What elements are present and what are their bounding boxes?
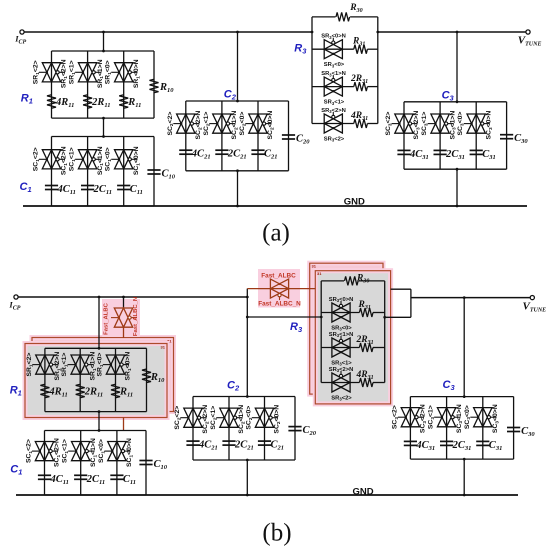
- label Fast_ALBC_N (left, b): [133, 297, 139, 336]
- gate control label SC2<0>N: [274, 405, 282, 434]
- transmission gate SR1<2>: [32, 355, 58, 374]
- wire Fast_ALBC red bypass wire (b): [247, 288, 315, 290]
- svg-text:Fast_ALBC_N: Fast_ALBC_N: [258, 301, 301, 308]
- label 4C21: [191, 149, 211, 161]
- gate control label SR3<0>N (b): [329, 297, 354, 303]
- label C2 (b) blue: [227, 380, 240, 393]
- label R10: [150, 372, 165, 384]
- label ICP (a): [14, 34, 26, 46]
- svg-text:GND: GND: [344, 197, 365, 208]
- gate control label SR3<0>N (a): [321, 34, 346, 40]
- gate control label SC3<0>N: [485, 111, 493, 140]
- highlight halo Fast_ALBC gate (right, b): [258, 269, 300, 308]
- svg-text:31: 31: [317, 271, 322, 276]
- resistor row 1 (b): [359, 308, 373, 317]
- label C21: [264, 149, 278, 161]
- label C31: [489, 440, 503, 452]
- label 4R11: [48, 387, 67, 399]
- capacitor 2C11: [74, 475, 87, 479]
- gate control label SC2<2>: [174, 406, 182, 430]
- capacitor 2C21: [222, 441, 235, 445]
- gate control label SC1<1>N: [90, 438, 98, 467]
- wire trunk to R3 left rail (b): [247, 316, 321, 318]
- label R30 (a): [349, 3, 362, 14]
- transmission gate SC1<0>: [111, 150, 137, 169]
- label R10: [159, 82, 174, 94]
- label 4R11: [55, 97, 74, 109]
- label ICP (b): [8, 299, 20, 311]
- label C10: [162, 169, 176, 181]
- transmission gate SC3<0>: [470, 408, 496, 427]
- gate control label SC2<0>: [246, 406, 254, 430]
- transmission gate SR1<2>: [39, 63, 65, 82]
- wire R1a branch 3: [123, 51, 125, 118]
- label R11: [119, 387, 133, 399]
- gate control label SC1<2>: [33, 147, 41, 171]
- transmission gate SC3<0>: [464, 114, 490, 133]
- wire VTUNE to C3 stub (b): [463, 296, 466, 398]
- wire ICP to C2 stub (a): [236, 31, 239, 103]
- capacitor C31: [476, 441, 489, 445]
- C1a box bottom rail wire: [52, 205, 155, 207]
- transmission gate SC2<1>: [209, 114, 235, 133]
- gate control label SC1<1>: [69, 147, 77, 171]
- label GND (a): [344, 197, 365, 208]
- label Fast_ALBC (right, b): [261, 273, 296, 280]
- label Fast_ALBC_N (right, b): [258, 301, 301, 308]
- resistor 4R11: [40, 384, 49, 398]
- gate control label SR1<0>: [105, 60, 113, 84]
- svg-text:SR3<1>: SR3<1>: [331, 361, 352, 367]
- label 2C31: [452, 440, 472, 452]
- wire C3a branch 1: [403, 102, 405, 169]
- caption (b): [262, 520, 291, 547]
- wire ICP to R1 stub (b): [98, 296, 101, 350]
- gate control label SR3<1> (b): [331, 361, 352, 367]
- wire C1b branch 1: [44, 431, 46, 496]
- svg-text:SR3<0>: SR3<0>: [331, 326, 352, 332]
- svg-text:Fast_ALBC: Fast_ALBC: [104, 302, 110, 334]
- wire C3b branch 2: [446, 397, 448, 460]
- capacitor 2C31: [434, 150, 447, 154]
- wire C1a branch 1: [51, 137, 53, 207]
- gate control label SR1<0>: [97, 353, 105, 377]
- transmission gate SR1<0>: [111, 63, 137, 82]
- gate control label SC3<2>N: [413, 111, 421, 140]
- label 2R31 (b): [356, 335, 374, 346]
- capacitor 2C31: [440, 441, 453, 445]
- highlight box R3 copy (back, b): [310, 263, 383, 394]
- label 2C31: [445, 149, 465, 161]
- capacitor 2C11: [81, 186, 94, 190]
- transmission gate SC2<2>: [173, 114, 199, 133]
- svg-text:SR3<0>: SR3<0>: [324, 62, 345, 68]
- transmission gate SR3<0> (b): [332, 301, 350, 322]
- gate control label SC3<1>: [421, 112, 429, 136]
- R1b box top rail wire: [45, 347, 147, 349]
- gate control label SR1<1>N: [97, 59, 105, 88]
- transmission gate SC3<1>: [428, 114, 454, 133]
- capacitor C10: [147, 170, 160, 174]
- R3 (b) top edge wire with R30: [321, 280, 385, 282]
- gate control label SR1<2>: [33, 60, 41, 84]
- R3 (b) right rail wire: [383, 281, 386, 383]
- gate control label SC3<0>: [464, 405, 472, 429]
- R3 (b) row 3 wire: [321, 382, 385, 384]
- transmission gate SC3<1>: [434, 408, 460, 427]
- gate control label SR1<1>: [61, 353, 69, 377]
- transmission gate SC1<2>: [39, 150, 65, 169]
- label R11: [127, 97, 141, 109]
- R1a box right edge wire: [153, 51, 155, 118]
- transmission gate SC1<1>: [68, 442, 94, 461]
- wire C2 to GND stub (b): [246, 459, 249, 497]
- label C10: [154, 459, 168, 471]
- R1b box bottom rail wire: [45, 411, 147, 413]
- R1a box top rail wire: [52, 50, 155, 52]
- svg-text:Fast_ALBC: Fast_ALBC: [261, 273, 296, 280]
- label C3 (b) blue: [443, 379, 456, 392]
- capacitor C10: [139, 461, 152, 465]
- transmission gate SC1<0>: [104, 442, 130, 461]
- label C20: [296, 134, 310, 146]
- capacitor 4C21: [186, 441, 199, 445]
- svg-text:GND: GND: [353, 486, 374, 497]
- R3 (a) right rail wire: [376, 17, 379, 124]
- gate control label SC1<1>: [62, 439, 70, 463]
- gate control label SR3<0> (b): [331, 326, 352, 332]
- C1a box right edge wire: [153, 137, 155, 207]
- wire C3a branch 2: [439, 102, 441, 169]
- label 4C11: [57, 184, 76, 196]
- capacitor C11: [110, 475, 123, 479]
- svg-text:SR3<2>N: SR3<2>N: [329, 367, 354, 373]
- label 4C31: [409, 149, 429, 161]
- capacitor C21: [258, 441, 271, 445]
- gate control label SR3<2>N (a): [321, 108, 346, 114]
- R3 (b) left rail wire: [320, 281, 323, 383]
- label 2R11: [84, 387, 103, 399]
- capacitor 4C11: [38, 475, 51, 479]
- transmission gate SR1<1>: [68, 355, 94, 374]
- label R3 (a) blue: [294, 43, 307, 56]
- wire VTUNE to C3 stub (a): [456, 31, 459, 104]
- node: ICP to R1 stub (a): [102, 31, 105, 53]
- label 4R31 (a): [350, 111, 368, 122]
- label C2 (a) blue: [224, 88, 237, 101]
- gate control label SR3<2>N (b): [329, 367, 354, 373]
- capacitor 4C11: [45, 186, 58, 190]
- transmission gate SR3<2> (b): [332, 371, 350, 392]
- highlight halo Fast_ALBC gate (left, b): [102, 299, 140, 337]
- C3b box right edge wire: [513, 397, 515, 460]
- resistor R30 (b): [345, 276, 359, 285]
- label C20: [303, 425, 317, 437]
- wire ICP corner trunk (b): [246, 289, 249, 397]
- wire C3 to GND stub (b): [463, 458, 466, 497]
- R3 (b) row 2 wire: [321, 347, 385, 349]
- gate control label SC1<2>N: [61, 146, 69, 175]
- label R31 (b): [358, 300, 371, 311]
- C2b box bottom rail wire: [193, 459, 295, 461]
- wire R1 to C1 stub (a): [102, 117, 105, 138]
- wire C3b branch 1: [409, 397, 411, 460]
- wire C3b branch 3: [482, 397, 484, 460]
- label R1 (b) blue: [10, 384, 22, 397]
- caption (a): [262, 220, 290, 247]
- label R30 (b): [356, 273, 369, 284]
- label 4C31: [415, 440, 435, 452]
- label R31 (a): [352, 37, 365, 48]
- resistor 4R31 (a): [354, 119, 368, 128]
- gate control label SC1<2>N: [54, 438, 62, 467]
- gate control label SR3<2> (a): [324, 137, 345, 143]
- wire Fast_ALBC gate to R1 box (b): [123, 327, 125, 338]
- wire VTUNE line (a): [378, 31, 526, 33]
- C1b box top rail wire: [45, 430, 147, 432]
- wire C2b branch 3: [264, 397, 266, 461]
- label 2C11: [86, 474, 105, 486]
- transmission gate SC1<1>: [75, 150, 101, 169]
- label 2C21: [234, 440, 254, 452]
- capacitor C31: [470, 150, 483, 154]
- C3b box top rail wire: [410, 396, 513, 398]
- svg-text:(a): (a): [262, 220, 290, 247]
- transmission gate SR1<0>: [103, 355, 129, 374]
- resistor 2R11: [76, 384, 85, 398]
- svg-text:Fast_ALBC_N: Fast_ALBC_N: [133, 297, 139, 336]
- resistor row 3 (b): [359, 378, 373, 387]
- label 4C21: [198, 440, 218, 452]
- R1b box right edge wire: [146, 348, 148, 411]
- gate control label SC1<0>: [98, 439, 106, 463]
- label C1 (b) blue: [10, 464, 22, 477]
- wire C2b branch 1: [192, 397, 194, 461]
- R3 (a) row 2 wire: [312, 86, 378, 88]
- gate control label SR1<2>: [26, 353, 34, 377]
- C3a box top rail wire: [404, 101, 507, 103]
- svg-text:31: 31: [161, 345, 166, 350]
- wire red bypass emerges right (b): [391, 288, 411, 290]
- label 4R31 (b): [356, 370, 374, 381]
- wire C2a branch 3: [257, 101, 259, 171]
- transmission gate SR1<1>: [75, 63, 101, 82]
- terminal VTUNE (a): [526, 30, 530, 34]
- C3a box right edge wire: [506, 102, 508, 169]
- wire C2a branch 1: [185, 101, 187, 171]
- capacitor 4C31: [397, 150, 410, 154]
- label C30: [514, 133, 528, 145]
- GND line (b): [16, 494, 518, 496]
- svg-text:SR3<1>N: SR3<1>N: [329, 332, 354, 338]
- gate control label SR3<2> (b): [331, 396, 352, 402]
- wire R1a branch 1: [51, 51, 53, 118]
- wire C1a branch 3: [123, 137, 125, 207]
- wire ICP to Fast_ALBC gate (b): [122, 296, 125, 308]
- wire C1a branch 2: [87, 137, 89, 207]
- capacitor C30: [507, 428, 520, 432]
- resistor R10: [142, 369, 151, 383]
- gate control label SR1<2>N: [61, 59, 69, 88]
- capacitor 2C21: [215, 150, 228, 154]
- label C11: [123, 474, 136, 486]
- transmission gate SC2<0>: [252, 408, 278, 427]
- transmission gate SC1<2>: [32, 442, 58, 461]
- gate control label SC2<0>: [239, 112, 247, 136]
- wire bracket vertical (b): [410, 289, 412, 317]
- capacitor 4C31: [404, 441, 417, 445]
- label Fast_ALBC (left, b): [104, 302, 110, 334]
- wire R1b branch 3: [115, 348, 117, 411]
- gate control label SC2<1>: [210, 406, 218, 430]
- transmission gate SC3<2>: [398, 408, 424, 427]
- transmission gate Fast_ALBC (right, b): [270, 279, 288, 300]
- label 2R11: [91, 97, 110, 109]
- gate control label SC2<2>N: [202, 405, 210, 434]
- label C11: [130, 184, 143, 196]
- gate control label SC3<0>N: [492, 404, 500, 433]
- wire R1 to C1 stub (b): [98, 410, 101, 432]
- gate control label SC2<1>N: [238, 405, 246, 434]
- svg-text:SR3<0>N: SR3<0>N: [329, 297, 354, 303]
- capacitor C20: [288, 427, 301, 431]
- highlight box R3 copy (front, b): [315, 271, 390, 404]
- gate control label SC1<0>N: [126, 438, 134, 467]
- transmission gate SR3<1> (a): [324, 75, 342, 96]
- wire C3 to GND stub (a): [456, 168, 459, 208]
- gate control label SC3<1>N: [456, 404, 464, 433]
- label C31: [482, 149, 496, 161]
- wire C2a branch 2: [221, 101, 223, 171]
- gate control label SC3<1>: [428, 405, 436, 429]
- capacitor C21: [251, 150, 264, 154]
- gate control label SC1<1>N: [97, 146, 105, 175]
- label C30: [521, 426, 535, 438]
- label C3 (a) blue: [442, 90, 455, 103]
- resistor R11: [119, 95, 128, 109]
- svg-text:SR3<2>: SR3<2>: [331, 396, 352, 402]
- C1b box right edge wire: [145, 431, 147, 496]
- highlight box R1 copy (front, b): [25, 344, 167, 418]
- label VTUNE (b): [523, 300, 547, 313]
- gate control label SR1<1>: [69, 60, 77, 84]
- gate control label SR3<1> (a): [324, 100, 345, 106]
- C1b box bottom rail wire: [45, 494, 147, 496]
- label 2C21: [227, 149, 247, 161]
- gate control label SR3<0> (a): [324, 62, 345, 68]
- gate control label SC2<2>N: [195, 111, 203, 140]
- gate control label SC3<2>: [391, 405, 399, 429]
- transmission gate Fast_ALBC (left, b): [111, 308, 137, 327]
- R3 (a) row 3 wire: [312, 123, 378, 125]
- label R3 (b) blue: [290, 321, 303, 334]
- label 2C11: [93, 184, 112, 196]
- gate control label SC3<1>N: [449, 111, 457, 140]
- resistor R31 (a): [354, 45, 368, 54]
- transmission gate SC2<1>: [217, 408, 243, 427]
- resistor R11: [111, 384, 120, 398]
- wire Fast_ALBC gate top lead (b): [123, 308, 125, 309]
- gate control label SC1<0>N: [133, 146, 141, 175]
- svg-text:SR3<1>N: SR3<1>N: [321, 71, 346, 77]
- label C1 (a) blue: [20, 181, 32, 194]
- label 2R31 (a): [350, 74, 368, 85]
- resistor R30 (a): [336, 12, 350, 21]
- label 4C11: [50, 474, 69, 486]
- label VTUNE (a): [518, 35, 542, 48]
- wire Fast_ALBC bypass to C1 (b): [123, 417, 125, 430]
- resistor R10: [150, 79, 159, 93]
- wire C1b branch 3: [116, 431, 118, 496]
- terminal VTUNE (b): [530, 296, 534, 300]
- wire R1b branch 1: [44, 348, 46, 411]
- gate control label SR1<2>N: [54, 352, 62, 381]
- wire C1b branch 2: [80, 431, 82, 496]
- gate control label SR1<0>N: [133, 59, 141, 88]
- resistor 2R31 (a): [354, 82, 368, 91]
- C3a box bottom rail wire: [404, 168, 507, 170]
- wire C3a branch 3: [475, 102, 477, 169]
- wire R1a branch 2: [87, 51, 89, 118]
- svg-text:SR3<1>: SR3<1>: [324, 100, 345, 106]
- transmission gate SC2<2>: [181, 408, 207, 427]
- svg-text:SR3<2>: SR3<2>: [324, 137, 345, 143]
- gate control label SR3<1>N (a): [321, 71, 346, 77]
- capacitor C11: [117, 186, 130, 190]
- wire R3 right rail out (b): [385, 316, 411, 318]
- transmission gate SC3<2>: [392, 114, 418, 133]
- transmission gate SR3<0> (a): [324, 38, 342, 59]
- capacitor C30: [500, 135, 513, 139]
- wire R1b branch 2: [79, 348, 81, 411]
- resistor 4R11: [47, 95, 56, 109]
- R3 (b) row 1 wire: [321, 312, 385, 314]
- gate control label SC2<1>N: [231, 111, 239, 140]
- gate control label SC2<1>: [203, 112, 211, 136]
- gate control label SC1<2>: [26, 439, 34, 463]
- node trunk to C2 top (b): [246, 395, 249, 398]
- transmission gate SR3<1> (b): [332, 336, 350, 357]
- capacitor C20: [282, 135, 295, 139]
- wire VTUNE line (b): [411, 297, 530, 299]
- gate control label SR1<0>N: [125, 352, 133, 381]
- highlight box R1 copy (back, b): [32, 338, 174, 412]
- capacitor 4C21: [179, 150, 192, 154]
- transmission gate SR3<2> (a): [324, 112, 342, 133]
- wire C2b branch 2: [228, 397, 230, 461]
- transmission gate SC2<0>: [246, 114, 272, 133]
- label R1 (a) blue: [21, 93, 33, 106]
- gate control label SC2<2>: [167, 112, 175, 136]
- gate control label SC3<0>: [457, 112, 465, 136]
- gate control label SR1<1>N: [89, 352, 97, 381]
- gate control label SR3<1>N (b): [329, 332, 354, 338]
- terminal ICP (a): [20, 30, 312, 34]
- resistor row 2 (b): [359, 343, 373, 352]
- C2a box right edge wire: [288, 101, 290, 171]
- gate control label SC3<2>N: [420, 404, 428, 433]
- R3 (a) top edge wire with R30: [312, 16, 378, 18]
- C2b box right edge wire: [294, 397, 296, 461]
- gate control label SC1<0>: [105, 147, 113, 171]
- svg-text:SR3<2>N: SR3<2>N: [321, 108, 346, 114]
- C2a box bottom rail wire: [186, 170, 289, 172]
- terminal ICP (b): [14, 295, 247, 299]
- R3 (a) row 1 wire: [312, 48, 378, 50]
- wire C2 to GND stub (a): [236, 169, 239, 207]
- label GND (b): [353, 486, 374, 497]
- resistor 2R11: [83, 95, 92, 109]
